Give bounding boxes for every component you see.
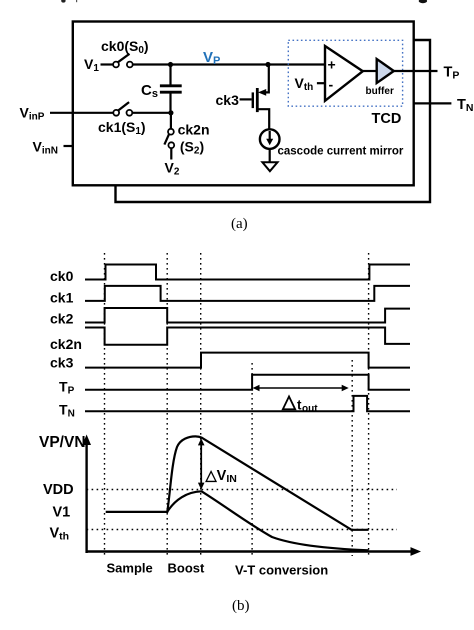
signal TP	[85, 375, 410, 390]
cropped caption fragment right	[419, 0, 427, 3]
svg-text:(a): (a)	[231, 216, 248, 232]
transistor M1 drain arrow	[258, 89, 266, 96]
dotted gridline x=368.6	[368, 253, 370, 556]
signal ck2n	[85, 328, 410, 345]
wire current source to ground	[269, 149, 271, 162]
switch ck2n(S2)	[164, 129, 174, 148]
buffer U2	[377, 59, 394, 83]
delta VIN arrow	[198, 438, 205, 490]
junction dot cap top	[168, 62, 173, 67]
inner block (P-side)	[73, 22, 414, 186]
y axis	[82, 435, 91, 554]
wire VinN stub	[64, 145, 73, 147]
delta t out arrow	[253, 385, 349, 391]
signal ck2	[85, 308, 410, 323]
outer block (N-side copy)	[116, 40, 431, 202]
svg-text:ck3: ck3	[50, 355, 74, 371]
capacitor Cs	[160, 65, 182, 113]
svg-text:ck2n: ck2n	[178, 122, 210, 138]
svg-text:out: out	[302, 404, 318, 415]
junction dot VP to M1	[265, 62, 270, 67]
svg-text:ck2n: ck2n	[50, 336, 82, 352]
svg-text:cascode current mirror: cascode current mirror	[278, 146, 404, 158]
signal ck0	[85, 265, 410, 280]
signal ck3	[85, 353, 410, 368]
label delta t out	[283, 397, 318, 415]
dotted gridline x=252.1	[251, 363, 253, 556]
ground	[262, 162, 277, 171]
svg-text:ck1: ck1	[50, 290, 74, 306]
wire node down to drain	[262, 65, 269, 93]
switch ck0(S0)	[113, 54, 133, 68]
wire to V2	[170, 148, 172, 160]
x axis	[87, 547, 421, 556]
dotted gridline x=167.2	[166, 253, 168, 556]
wire VinP to switch S1	[50, 112, 113, 114]
wire comparator to buffer	[363, 70, 377, 72]
TCD dotted box	[288, 40, 402, 106]
switch ck1(S1)	[113, 102, 132, 116]
svg-text:ck0: ck0	[50, 268, 74, 284]
wire down to switch S2	[170, 113, 172, 129]
svg-text:ck3: ck3	[216, 92, 240, 108]
op-amp comparator U1	[325, 46, 363, 101]
wire TN output	[414, 102, 452, 104]
waveform VN	[167, 491, 368, 550]
svg-text:buffer: buffer	[366, 86, 394, 97]
transistor M1	[240, 88, 270, 130]
signal ck1	[85, 286, 410, 301]
wire Vth stub	[317, 82, 325, 84]
wire V1 to switch S0	[101, 63, 114, 65]
svg-text:(S2): (S2)	[180, 139, 204, 157]
svg-text:Sample: Sample	[107, 561, 153, 576]
svg-text:V-T conversion: V-T conversion	[235, 563, 328, 578]
cropped caption fragment left	[61, 0, 77, 3]
waveform VP	[106, 436, 369, 529]
svg-text:VP/VN: VP/VN	[39, 434, 86, 451]
dotted level VDD	[87, 489, 397, 491]
svg-text:Boost: Boost	[168, 561, 206, 576]
dotted level Vth	[87, 529, 397, 531]
current source I1	[260, 129, 280, 149]
svg-text:(b): (b)	[232, 598, 250, 614]
svg-text:TCD: TCD	[372, 111, 402, 127]
svg-text:V1: V1	[53, 505, 71, 521]
dotted gridline x=352.2	[351, 360, 353, 556]
dotted gridline x=104.5	[104, 253, 106, 556]
wire TP output	[394, 70, 438, 72]
dotted gridline x=200.7	[200, 253, 202, 556]
svg-text:VDD: VDD	[43, 482, 74, 498]
wire S1 to node	[132, 112, 171, 114]
svg-text:+: +	[328, 57, 336, 73]
svg-text:ck2: ck2	[50, 311, 74, 327]
svg-text:-: -	[329, 77, 334, 93]
junction dot cap bottom	[168, 110, 173, 115]
signal TN	[85, 396, 410, 411]
wire VP (top rail)	[133, 63, 325, 65]
